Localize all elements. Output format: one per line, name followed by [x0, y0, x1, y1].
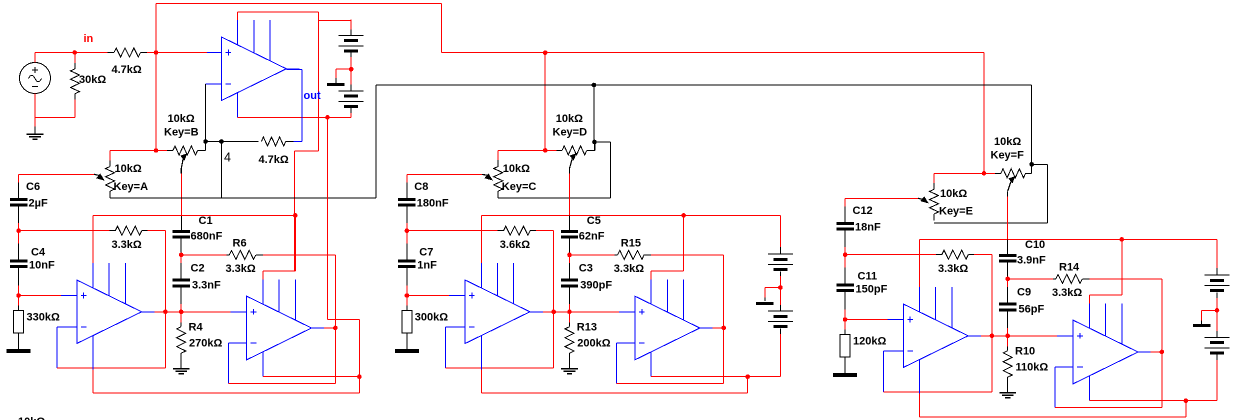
svg-text:C7: C7	[419, 247, 433, 259]
svg-text:Key=A: Key=A	[114, 181, 149, 193]
svg-text:C8: C8	[414, 181, 428, 193]
svg-text:R4: R4	[189, 322, 204, 334]
svg-text:18nF: 18nF	[855, 222, 881, 234]
svg-text:330kΩ: 330kΩ	[27, 312, 60, 324]
svg-text:110kΩ: 110kΩ	[1016, 362, 1049, 374]
svg-text:2µF: 2µF	[29, 198, 48, 210]
svg-text:10kΩ: 10kΩ	[940, 188, 967, 200]
svg-text:R6: R6	[233, 238, 247, 250]
svg-text:3.3kΩ: 3.3kΩ	[614, 263, 644, 275]
svg-text:C5: C5	[587, 215, 601, 227]
svg-text:180nF: 180nF	[417, 198, 449, 210]
svg-text:1nF: 1nF	[417, 260, 437, 272]
svg-text:C3: C3	[579, 263, 593, 275]
svg-text:3.3kΩ: 3.3kΩ	[226, 263, 256, 275]
svg-text:10kΩ: 10kΩ	[994, 136, 1021, 148]
svg-text:680nF: 680nF	[191, 231, 223, 243]
svg-text:in: in	[84, 33, 94, 45]
svg-text:10kΩ: 10kΩ	[115, 163, 142, 175]
svg-text:3.3nF: 3.3nF	[192, 280, 221, 292]
svg-text:62nF: 62nF	[579, 231, 605, 243]
svg-text:Key=D: Key=D	[553, 127, 588, 139]
svg-text:R10: R10	[1015, 346, 1035, 358]
svg-text:200kΩ: 200kΩ	[577, 338, 610, 350]
svg-text:R13: R13	[577, 322, 597, 334]
svg-text:4: 4	[224, 151, 231, 165]
svg-text:10kΩ: 10kΩ	[168, 113, 195, 125]
svg-text:390pF: 390pF	[580, 280, 612, 292]
svg-text:10kΩ: 10kΩ	[18, 416, 45, 420]
svg-text:4.7kΩ: 4.7kΩ	[259, 154, 289, 166]
svg-text:C9: C9	[1017, 287, 1031, 299]
svg-text:Key=F: Key=F	[991, 150, 1025, 162]
svg-text:3.6kΩ: 3.6kΩ	[500, 239, 530, 251]
svg-text:3.3kΩ: 3.3kΩ	[112, 239, 142, 251]
svg-text:C4: C4	[31, 247, 46, 259]
svg-text:300kΩ: 300kΩ	[415, 312, 448, 324]
svg-text:120kΩ: 120kΩ	[853, 336, 886, 348]
svg-text:C11: C11	[858, 271, 878, 283]
svg-text:10kΩ: 10kΩ	[556, 113, 583, 125]
svg-text:270kΩ: 270kΩ	[189, 338, 222, 350]
svg-text:C1: C1	[199, 215, 213, 227]
svg-text:R15: R15	[621, 238, 641, 250]
svg-text:10kΩ: 10kΩ	[503, 163, 530, 175]
svg-text:C12: C12	[853, 205, 873, 217]
svg-text:4.7kΩ: 4.7kΩ	[112, 64, 142, 76]
svg-text:10nF: 10nF	[29, 260, 55, 272]
svg-text:Key=E: Key=E	[939, 206, 973, 218]
svg-text:R14: R14	[1059, 262, 1080, 274]
svg-text:3.3kΩ: 3.3kΩ	[938, 263, 968, 275]
svg-text:3.9nF: 3.9nF	[1017, 255, 1046, 267]
svg-text:C2: C2	[191, 263, 205, 275]
svg-text:Key=B: Key=B	[164, 127, 199, 139]
svg-text:C10: C10	[1025, 239, 1045, 251]
svg-text:56pF: 56pF	[1019, 304, 1045, 316]
svg-text:out: out	[304, 90, 321, 102]
svg-text:Key=C: Key=C	[502, 181, 537, 193]
svg-text:30kΩ: 30kΩ	[79, 74, 106, 86]
svg-text:3.3kΩ: 3.3kΩ	[1052, 287, 1082, 299]
svg-text:150pF: 150pF	[856, 284, 888, 296]
svg-text:C6: C6	[26, 181, 40, 193]
